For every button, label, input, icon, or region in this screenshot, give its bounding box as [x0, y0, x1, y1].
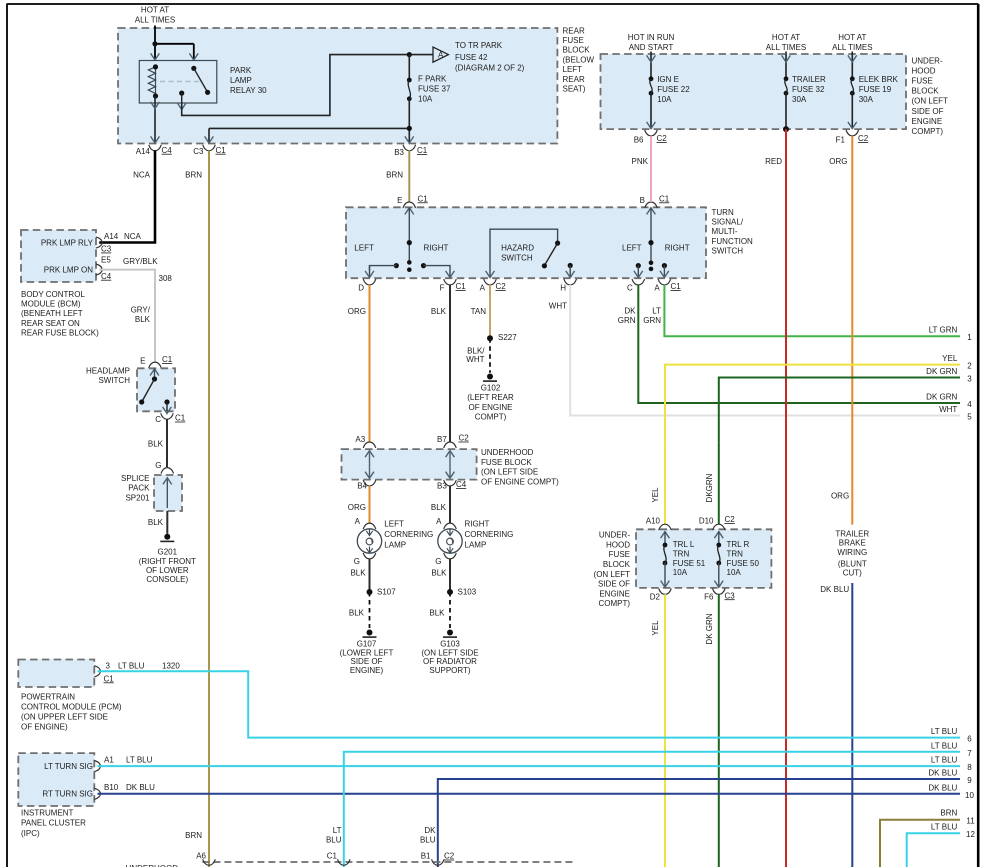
svg-text:LT BLU: LT BLU — [931, 727, 958, 736]
svg-text:REAR: REAR — [563, 75, 585, 84]
svg-text:TRL R: TRL R — [727, 540, 750, 549]
svg-text:BLU: BLU — [326, 836, 342, 845]
lamp LEFT CORNERING LAMP — [354, 520, 433, 566]
wire PNK B6 to turn signal B — [632, 136, 651, 202]
wire BLK left lamp G to splice S107 — [350, 559, 369, 592]
svg-text:5: 5 — [967, 413, 972, 422]
svg-text:A: A — [480, 283, 486, 292]
svg-text:C2: C2 — [725, 515, 736, 524]
wire ORG F1 to trailer brake wiring (blunt cut) — [829, 136, 852, 525]
connector F6 C3 (TRL fuse block) — [704, 589, 735, 602]
svg-text:DK: DK — [624, 306, 636, 315]
svg-text:BRN: BRN — [185, 831, 202, 840]
connector B7 C2 (underhood fuse block) — [437, 434, 469, 448]
svg-text:FUSE 32: FUSE 32 — [792, 85, 825, 94]
connector D (turn signal) — [358, 279, 376, 292]
svg-text:CONSOLE): CONSOLE) — [146, 575, 188, 584]
svg-text:C1: C1 — [104, 674, 115, 683]
wire right-pole right contact to A — [660, 263, 669, 278]
module POWERTRAIN CONTROL MODULE (PCM) — [18, 660, 122, 732]
svg-text:PACK: PACK — [128, 484, 150, 493]
connector F1 C2 (underhood fuse block) — [836, 130, 869, 144]
wire BRN right edge (tag 11) to bottom of page — [880, 808, 975, 867]
fuse IGN E FUSE 22 10A — [647, 52, 691, 129]
wire BLK B3 to right cornering lamp — [431, 486, 450, 526]
svg-text:30A: 30A — [859, 95, 874, 104]
svg-text:FUSE BLOCK: FUSE BLOCK — [481, 458, 532, 467]
wire BLK/WHT S227 to ground G102 — [466, 338, 490, 373]
svg-text:BLOCK: BLOCK — [563, 46, 591, 55]
svg-text:F6: F6 — [704, 593, 714, 602]
svg-text:FUSE 42: FUSE 42 — [455, 53, 488, 62]
svg-text:RED: RED — [765, 157, 782, 166]
svg-text:(RIGHT FRONT: (RIGHT FRONT — [139, 557, 196, 566]
svg-text:SIGNAL/: SIGNAL/ — [712, 218, 744, 227]
connector C (turn signal) — [627, 279, 645, 292]
svg-text:GRY/: GRY/ — [131, 306, 151, 315]
svg-text:(LOWER LEFT: (LOWER LEFT — [340, 648, 394, 657]
connector B4 (underhood fuse block) — [357, 480, 376, 490]
svg-text:D2: D2 — [650, 593, 661, 602]
underhood fuse block TRL (dashed box) — [594, 529, 772, 608]
svg-text:ALL TIMES: ALL TIMES — [135, 16, 175, 25]
svg-text:YEL: YEL — [942, 354, 958, 363]
underhood fuse block top right (dashed box) — [601, 54, 949, 136]
svg-text:E: E — [397, 196, 402, 205]
svg-text:LEFT: LEFT — [563, 65, 583, 74]
svg-text:GRN: GRN — [618, 316, 636, 325]
splice S103 — [447, 587, 477, 596]
svg-text:C4: C4 — [162, 146, 173, 155]
connector H (turn signal) — [560, 279, 576, 292]
svg-text:DK BLU: DK BLU — [928, 769, 957, 778]
svg-text:A14: A14 — [136, 147, 151, 156]
svg-text:(BENEATH LEFT: (BENEATH LEFT — [21, 309, 83, 318]
wire BRN B3 to turn signal switch E — [386, 151, 409, 203]
svg-text:G103: G103 — [440, 640, 460, 649]
svg-text:LAMP: LAMP — [230, 76, 252, 85]
svg-text:1320: 1320 — [162, 662, 180, 671]
wire YEL right edge (tag 2) to TRL L TRN fuse 51 and bottom — [651, 354, 972, 502]
svg-text:PRK LMP ON: PRK LMP ON — [44, 266, 93, 275]
svg-text:A: A — [438, 50, 444, 59]
ground G107 (LOWER LEFT SIDE OF ENGINE) — [340, 630, 394, 675]
svg-text:LT BLU: LT BLU — [118, 662, 145, 671]
svg-text:3: 3 — [967, 375, 972, 384]
svg-text:UNDERHOOD: UNDERHOOD — [481, 448, 534, 457]
svg-text:RELAY 30: RELAY 30 — [230, 86, 267, 95]
svg-text:(BELOW: (BELOW — [563, 55, 595, 64]
svg-text:6: 6 — [967, 735, 972, 744]
svg-text:C4: C4 — [456, 480, 467, 489]
wire right-pole left contact to C — [634, 263, 643, 278]
svg-text:B6: B6 — [634, 135, 644, 144]
svg-text:C3: C3 — [725, 591, 736, 600]
svg-text:4: 4 — [967, 400, 972, 409]
svg-text:C4: C4 — [101, 272, 112, 281]
svg-text:(LEFT REAR: (LEFT REAR — [467, 393, 514, 402]
svg-text:BRN: BRN — [386, 171, 403, 180]
switch HAZARD SWITCH — [486, 229, 561, 277]
label REAR FUSE BLOCK (BELOW LEFT REAR SEAT) — [563, 26, 595, 93]
svg-text:LT BLU: LT BLU — [931, 755, 958, 764]
svg-text:2: 2 — [967, 362, 972, 371]
svg-text:HOT AT: HOT AT — [772, 33, 800, 42]
svg-text:ENGINE): ENGINE) — [350, 666, 384, 675]
svg-text:LAMP: LAMP — [384, 541, 406, 550]
svg-text:(ON LEFT SIDE: (ON LEFT SIDE — [421, 648, 478, 657]
svg-text:WIRING: WIRING — [837, 548, 867, 557]
wire BRN C3 to underhood connector A6 (bottom) — [185, 151, 209, 867]
svg-text:SIDE OF: SIDE OF — [598, 580, 630, 589]
svg-text:10A: 10A — [657, 95, 672, 104]
svg-text:SEAT): SEAT) — [563, 85, 586, 94]
wire DK BLU right edge (tag 9) to bottom connector B1 — [420, 769, 972, 867]
svg-text:HOT IN RUN: HOT IN RUN — [628, 33, 675, 42]
rear fuse block (dashed box) — [118, 28, 557, 144]
fuse TRL L TRN FUSE 51 10A — [661, 532, 706, 588]
svg-text:10: 10 — [965, 791, 974, 800]
svg-text:C1: C1 — [456, 282, 467, 291]
svg-text:BLK: BLK — [431, 569, 447, 578]
svg-text:FUSE: FUSE — [563, 36, 584, 45]
svg-text:OF ENGINE: OF ENGINE — [468, 403, 512, 412]
svg-text:ORG: ORG — [348, 503, 366, 512]
module INSTRUMENT PANEL CLUSTER (IPC) — [18, 753, 118, 838]
wire left pole contact to D — [365, 263, 399, 278]
svg-text:PNK: PNK — [632, 157, 649, 166]
svg-text:RIGHT: RIGHT — [465, 520, 490, 529]
svg-text:C1: C1 — [216, 146, 227, 155]
svg-text:B3: B3 — [437, 481, 447, 490]
connector C3 C1 (rear fuse block) — [193, 145, 226, 156]
svg-text:FUNCTION: FUNCTION — [712, 237, 754, 246]
svg-text:GRY/BLK: GRY/BLK — [123, 257, 158, 266]
svg-text:ENGINE: ENGINE — [912, 117, 943, 126]
svg-text:C: C — [155, 415, 161, 424]
pass-through arrows inside underhood fuse block — [365, 451, 454, 479]
svg-text:E: E — [140, 357, 145, 366]
svg-text:A14: A14 — [104, 232, 119, 241]
svg-text:FUSE: FUSE — [912, 77, 933, 86]
svg-text:CONTROL MODULE (PCM): CONTROL MODULE (PCM) — [21, 703, 122, 712]
connector A3 (underhood fuse block) — [355, 435, 375, 448]
svg-text:C1: C1 — [417, 146, 428, 155]
wire relay contact output to fuse 42 arrow and fuse 37 — [177, 52, 433, 115]
module BODY CONTROL MODULE (BCM) — [21, 230, 112, 337]
svg-text:10A: 10A — [673, 568, 688, 577]
svg-text:REAR SEAT ON: REAR SEAT ON — [21, 319, 80, 328]
net label HOT AT ALL TIMES (trailer fuse) — [766, 33, 806, 52]
svg-text:A10: A10 — [646, 516, 661, 525]
svg-text:SP201: SP201 — [125, 493, 150, 502]
svg-text:G201: G201 — [158, 548, 178, 557]
svg-text:A: A — [436, 517, 442, 526]
svg-text:S227: S227 — [498, 333, 517, 342]
label TRAILER BRAKE WIRING (BLUNT CUT) — [835, 530, 869, 578]
svg-text:DK BLU: DK BLU — [820, 585, 849, 594]
svg-text:ALL TIMES: ALL TIMES — [832, 43, 872, 52]
svg-text:B3: B3 — [394, 148, 404, 157]
svg-text:NCA: NCA — [133, 171, 151, 180]
svg-text:YEL: YEL — [651, 620, 660, 636]
svg-text:BLK: BLK — [135, 315, 151, 324]
wire BLK splice pack to ground G201 — [148, 511, 167, 534]
splice pack SP201 — [121, 468, 182, 511]
wire LT BLU IPC LT TURN SIG to right edge (tag 8) — [98, 755, 973, 772]
svg-text:TRAILER: TRAILER — [792, 75, 826, 84]
svg-text:NCA: NCA — [124, 232, 142, 241]
svg-text:SIDE OF: SIDE OF — [912, 107, 944, 116]
connector B C1 (turn signal switch) — [640, 194, 670, 208]
svg-text:TURN: TURN — [712, 208, 734, 217]
svg-text:FUSE: FUSE — [609, 550, 630, 559]
svg-text:DK GRN: DK GRN — [705, 613, 714, 644]
svg-text:(ON LEFT SIDE: (ON LEFT SIDE — [481, 468, 538, 477]
svg-text:G107: G107 — [357, 640, 377, 649]
net label HOT AT ALL TIMES (elek brk fuse) — [832, 33, 872, 52]
wire BLK turn signal F to underhood B7 — [431, 285, 450, 442]
svg-text:C1: C1 — [175, 414, 186, 423]
svg-text:B10: B10 — [104, 783, 119, 792]
svg-text:S103: S103 — [458, 587, 477, 596]
svg-text:C: C — [627, 283, 633, 292]
svg-text:LAMP: LAMP — [465, 541, 487, 550]
svg-text:11: 11 — [966, 817, 975, 826]
svg-text:C1: C1 — [162, 355, 173, 364]
svg-text:YEL: YEL — [651, 487, 660, 503]
svg-text:BLK: BLK — [350, 569, 366, 578]
connector D2 (TRL fuse block) — [650, 589, 672, 602]
svg-text:(ON LEFT: (ON LEFT — [912, 97, 949, 106]
svg-text:REAR: REAR — [563, 26, 585, 35]
svg-text:BLOCK: BLOCK — [912, 87, 940, 96]
svg-text:F1: F1 — [836, 135, 846, 144]
svg-text:BRN: BRN — [940, 808, 957, 817]
svg-text:A: A — [654, 283, 660, 292]
svg-text:GRN: GRN — [643, 316, 661, 325]
svg-text:C2: C2 — [657, 134, 668, 143]
svg-text:FUSE 51: FUSE 51 — [673, 559, 706, 568]
svg-text:HOT AT: HOT AT — [141, 6, 169, 15]
wire ORG turn signal D to underhood A3 — [348, 285, 370, 442]
connector A10 (TRL fuse block) — [646, 516, 672, 530]
ground G103 (ON LEFT SIDE OF RADIATOR SUPPORT) — [421, 630, 478, 675]
svg-text:10A: 10A — [727, 568, 742, 577]
svg-text:LT BLU: LT BLU — [931, 741, 958, 750]
wire LT BLU right edge (tag 7) to bottom connector C1 — [326, 741, 972, 867]
svg-text:LEFT: LEFT — [384, 520, 404, 529]
svg-text:DK BLU: DK BLU — [126, 783, 155, 792]
svg-text:SIDE OF: SIDE OF — [350, 657, 382, 666]
connector B3 C4 (underhood fuse block) — [437, 480, 467, 490]
svg-text:OF LOWER: OF LOWER — [146, 566, 189, 575]
svg-text:B1: B1 — [421, 852, 431, 861]
svg-text:F PARK: F PARK — [418, 75, 447, 84]
svg-text:ORG: ORG — [831, 492, 849, 501]
svg-text:B7: B7 — [437, 435, 447, 444]
svg-text:WHT: WHT — [549, 301, 567, 310]
wire LT GRN turn signal A to right edge (tag 1) — [643, 285, 972, 342]
connector B1 C2 (bottom box) — [421, 852, 455, 866]
svg-text:A: A — [355, 517, 361, 526]
wire TAN hazard A to splice S227 — [471, 285, 490, 338]
wire DK GRN into TRL fuse block — [718, 442, 720, 524]
lamp RIGHT CORNERING LAMP — [435, 520, 513, 566]
off-page arrow A TO TR PARK FUSE 42 (DIAGRAM 2 OF 2) — [433, 41, 525, 73]
wire battery feed to relay coil and contact — [151, 26, 199, 61]
svg-text:ENGINE: ENGINE — [599, 589, 630, 598]
fuse ELEK BRK FUSE 19 30A — [848, 52, 899, 129]
svg-text:G: G — [155, 461, 161, 470]
svg-text:DK: DK — [424, 826, 436, 835]
splice S107 — [367, 587, 397, 596]
svg-text:C2: C2 — [459, 434, 470, 443]
svg-text:DK GRN: DK GRN — [926, 393, 957, 402]
svg-text:(BLUNT: (BLUNT — [838, 560, 867, 569]
svg-text:(ON UPPER LEFT SIDE: (ON UPPER LEFT SIDE — [21, 713, 108, 722]
wire right pole contact to F — [421, 263, 455, 278]
svg-text:BLK: BLK — [431, 503, 447, 512]
svg-text:B4: B4 — [357, 481, 367, 490]
svg-text:DKGRN: DKGRN — [705, 473, 714, 502]
svg-text:SWITCH: SWITCH — [712, 247, 744, 256]
svg-text:C1: C1 — [671, 282, 682, 291]
svg-text:(IPC): (IPC) — [21, 829, 40, 838]
svg-text:D: D — [358, 283, 364, 292]
svg-text:TRL L: TRL L — [673, 540, 695, 549]
svg-text:LT TURN SIG: LT TURN SIG — [44, 762, 93, 771]
svg-text:DK GRN: DK GRN — [926, 367, 957, 376]
svg-text:C2: C2 — [496, 282, 507, 291]
svg-text:HOT AT: HOT AT — [838, 33, 866, 42]
svg-text:LT: LT — [333, 826, 342, 835]
svg-text:C2: C2 — [444, 852, 455, 861]
svg-text:UNDER-: UNDER- — [912, 56, 943, 65]
svg-text:COMPT): COMPT) — [475, 413, 507, 422]
svg-text:SWITCH: SWITCH — [501, 253, 533, 262]
svg-text:FUSE 19: FUSE 19 — [859, 85, 892, 94]
svg-text:7: 7 — [967, 749, 972, 758]
fuse TRAILER FUSE 32 30A — [782, 52, 826, 130]
connector B6 C2 (underhood fuse block) — [634, 130, 668, 144]
svg-text:TRN: TRN — [673, 550, 690, 559]
wire YEL into TRL fuse block — [664, 442, 666, 524]
wire BLK headlamp switch C to splice pack — [148, 419, 167, 470]
switch TURN SIGNAL / MULTI-FUNCTION SWITCH (dashed box) — [346, 207, 753, 278]
connector E C1 (turn signal switch) — [397, 194, 428, 208]
svg-text:B: B — [640, 196, 645, 205]
svg-text:OF RADIATOR: OF RADIATOR — [423, 657, 477, 666]
svg-text:30A: 30A — [792, 95, 807, 104]
turn signal right pole switch (LEFT / RIGHT) — [622, 208, 690, 271]
svg-text:BRAKE: BRAKE — [839, 539, 866, 548]
svg-text:CORNERING: CORNERING — [384, 530, 433, 539]
svg-text:G: G — [354, 557, 360, 566]
svg-text:ORG: ORG — [348, 307, 366, 316]
svg-text:FUSE 50: FUSE 50 — [727, 559, 760, 568]
wire RED trailer fuse to bottom of page — [765, 129, 786, 867]
svg-text:PARK: PARK — [230, 66, 252, 75]
net label HOT IN RUN AND START — [628, 33, 675, 52]
svg-text:LT GRN: LT GRN — [929, 326, 958, 335]
connector A C1 (turn signal) — [654, 279, 681, 292]
connector A14 C4 (rear fuse block) — [136, 145, 173, 156]
svg-text:OF ENGINE COMPT): OF ENGINE COMPT) — [481, 477, 559, 486]
svg-text:1: 1 — [967, 333, 972, 342]
svg-text:C3: C3 — [101, 245, 112, 254]
wire DK GRN F6 to bottom of page — [705, 594, 719, 867]
svg-text:OF ENGINE): OF ENGINE) — [21, 723, 68, 732]
svg-text:BRN: BRN — [185, 171, 202, 180]
svg-text:10A: 10A — [418, 95, 433, 104]
wire DK GRN turn signal C to right edge (tag 4) — [618, 285, 973, 409]
svg-text:FUSE 22: FUSE 22 — [657, 85, 690, 94]
connector B3 C1 (rear fuse block) — [394, 145, 428, 157]
svg-text:LT BLU: LT BLU — [931, 823, 958, 832]
svg-text:A1: A1 — [104, 755, 114, 764]
relay PARK LAMP RELAY 30 — [139, 61, 267, 104]
svg-text:DK BLU: DK BLU — [928, 783, 957, 792]
wire hazard contact H — [566, 263, 575, 278]
svg-text:A3: A3 — [355, 435, 365, 444]
wire DK BLU trailer brake wiring to bottom of page — [820, 583, 852, 867]
svg-text:TO TR PARK: TO TR PARK — [455, 41, 503, 50]
svg-text:SWITCH: SWITCH — [98, 376, 130, 385]
ground G102 (LEFT REAR OF ENGINE COMPT) — [467, 374, 514, 422]
svg-text:BLK: BLK — [349, 608, 365, 617]
turn signal left pole switch (LEFT / RIGHT) — [354, 208, 448, 272]
wire NCA black A14 to BCM PRK LMP RLY — [99, 151, 155, 243]
svg-text:F: F — [440, 283, 445, 292]
svg-text:UNDER-: UNDER- — [599, 531, 630, 540]
svg-text:G: G — [435, 557, 441, 566]
underhood fuse block bottom (cut off at page edge) — [126, 862, 576, 867]
ground G201 (RIGHT FRONT OF LOWER CONSOLE) — [139, 534, 196, 584]
svg-text:LT: LT — [652, 306, 661, 315]
wire BLK S103 to ground G103 — [429, 592, 450, 628]
svg-text:AND START: AND START — [629, 43, 674, 52]
svg-text:TRAILER: TRAILER — [835, 530, 869, 539]
svg-text:D10: D10 — [699, 516, 714, 525]
wire GRY/BLK circuit 308 BCM PRK LMP ON to headlamp switch — [99, 257, 172, 362]
svg-text:COMPT): COMPT) — [912, 127, 944, 136]
wire DK GRN right edge (tag 3) to TRL R TRN fuse 50 and bottom — [705, 367, 972, 502]
svg-text:CORNERING: CORNERING — [465, 530, 514, 539]
wire DK BLU IPC RT TURN SIG to right edge (tag 10) — [98, 783, 975, 800]
svg-text:C3: C3 — [193, 147, 204, 156]
svg-text:BLK/: BLK/ — [467, 346, 485, 355]
wire relay coil output to connector A14 — [151, 96, 160, 143]
wire LT BLU right edge (tag 12) to bottom of page — [907, 823, 976, 867]
splice S227 — [487, 333, 517, 342]
svg-text:C1: C1 — [659, 194, 670, 203]
junction trailer fuse output — [783, 126, 789, 132]
svg-text:C1: C1 — [418, 194, 429, 203]
svg-text:HEADLAMP: HEADLAMP — [86, 366, 130, 375]
svg-text:PRK LMP RLY: PRK LMP RLY — [41, 238, 94, 247]
svg-text:RIGHT: RIGHT — [665, 244, 690, 253]
svg-text:FUSE 37: FUSE 37 — [418, 85, 451, 94]
wire BLK right lamp G to splice S103 — [431, 559, 450, 592]
svg-text:S107: S107 — [377, 587, 396, 596]
svg-text:PANEL CLUSTER: PANEL CLUSTER — [21, 819, 86, 828]
svg-text:308: 308 — [159, 274, 173, 283]
svg-text:BLK: BLK — [429, 608, 445, 617]
wire WHT turn signal H to right edge (tag 5) — [549, 285, 972, 422]
connector D10 C2 (TRL fuse block) — [699, 515, 735, 530]
svg-text:(DIAGRAM 2 OF 2): (DIAGRAM 2 OF 2) — [455, 64, 525, 73]
